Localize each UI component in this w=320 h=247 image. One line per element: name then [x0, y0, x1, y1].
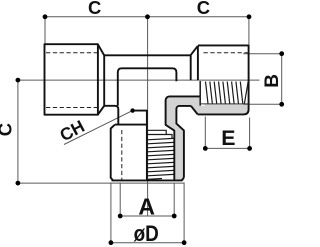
svg-text:A: A [138, 194, 155, 220]
svg-text:B: B [262, 74, 283, 88]
svg-text:C: C [88, 0, 101, 18]
svg-text:E: E [221, 126, 235, 150]
svg-text:C: C [0, 123, 15, 136]
svg-text:C: C [197, 0, 210, 18]
svg-text:øD: øD [134, 221, 159, 246]
